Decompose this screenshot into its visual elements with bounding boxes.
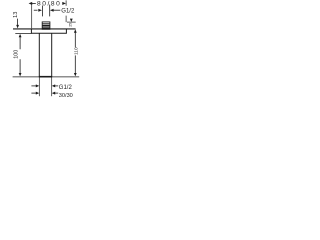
plate bottom extension line [15, 33, 31, 35]
pipe left edge [38, 33, 40, 76]
stub top extension line right [67, 21, 76, 23]
dim 80/80 arrow left [29, 2, 33, 5]
dim G1/2 top right arrow [50, 9, 54, 12]
dim G1/2 bottom right tail [55, 85, 58, 87]
dim 110 bottom arrow [74, 73, 77, 76]
dim 13 arrow [16, 25, 19, 29]
dim 100 line lower [19, 59, 21, 73]
stub extension line left [41, 6, 43, 17]
thread stub G1/2 [42, 22, 50, 29]
dim G1/2 top left arrow [34, 9, 38, 11]
dim 80/80 extension line left [31, 4, 33, 28]
dim 80/80 line left [32, 2, 36, 4]
svg-text:100: 100 [14, 50, 20, 59]
dim 30/30 left tail [31, 92, 36, 94]
ceiling line [13, 28, 76, 30]
svg-text:80/80: 80/80 [37, 1, 62, 8]
dim 100 top arrow [19, 34, 22, 37]
dim 30/30 left arrow [36, 92, 39, 95]
pipe bottom end [39, 76, 52, 78]
small dim arrow (stub top, right side) [70, 19, 73, 22]
dim 110 top arrow [74, 29, 77, 32]
dim 110 line lower [74, 55, 76, 73]
svg-text:25: 25 [68, 23, 72, 27]
dim 100 bottom arrow [19, 73, 22, 76]
svg-text:G1/2: G1/2 [61, 8, 75, 14]
dim 110 line upper [74, 32, 76, 47]
dim G1/2 bottom left arrow [36, 84, 39, 87]
dim 13 leader line [17, 19, 19, 26]
svg-text:13: 13 [13, 12, 19, 18]
svg-text:110: 110 [73, 47, 79, 55]
dim G1/2 bottom left tail [31, 85, 36, 87]
escutcheon plate [31, 29, 66, 33]
dim 80/80 extension line right [65, 0, 67, 5]
dim G1/2 bottom right arrow [52, 84, 55, 87]
plate edge extension line right [65, 16, 67, 23]
dim 30/30 right tail [55, 92, 58, 94]
pipe extension line down left [38, 78, 40, 97]
dim 100 line upper [19, 37, 21, 49]
dim 80/80 arrow right [62, 2, 66, 5]
dim 30/30 right arrow [52, 92, 55, 95]
stub extension line right [49, 5, 51, 17]
svg-text:30/30: 30/30 [59, 93, 73, 99]
pipe extension line down right [51, 78, 53, 97]
svg-text:G1/2: G1/2 [59, 85, 73, 91]
pipe end extension line [13, 76, 80, 78]
pipe right edge [51, 33, 53, 76]
